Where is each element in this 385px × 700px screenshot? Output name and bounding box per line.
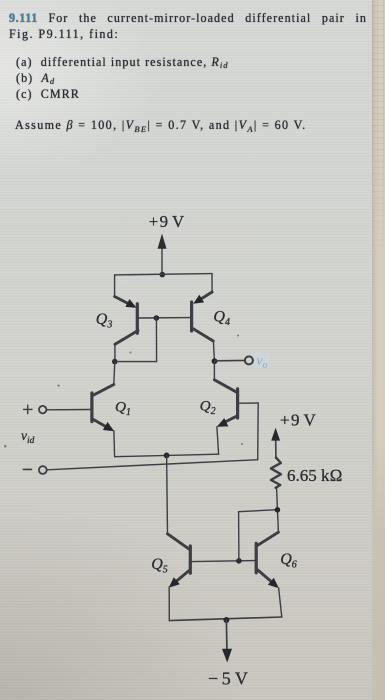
node output junction: [212, 358, 218, 364]
output terminal circle: [245, 356, 253, 364]
wire Q1 collector up: [114, 362, 115, 385]
node top-rail junction: [160, 272, 166, 278]
wire Q6 emitter down: [279, 588, 282, 617]
wire top rail: [115, 274, 212, 275]
problem text: [9, 10, 367, 26]
svg-text:+ 9 V: + 9 V: [280, 411, 316, 430]
power +9V right label: [280, 411, 316, 430]
svg-text:+ 9 V: + 9 V: [149, 212, 184, 231]
right page edge (graph paper strip): [372, 0, 385, 700]
svg-text:Q5: Q5: [151, 556, 168, 576]
node vid label: [21, 428, 35, 446]
wire diode connection drop: [155, 318, 157, 362]
svg-text:Q4: Q4: [213, 308, 230, 328]
wire tail down to Q5: [166, 455, 169, 533]
wire Q5 emitter down: [168, 587, 170, 621]
wire Q2 base right: [239, 402, 258, 404]
transistor Q3 (pnp): [96, 297, 138, 345]
wire Q2 emitter down: [217, 427, 219, 454]
svg-text:Q3: Q3: [96, 311, 113, 331]
input + terminal: [24, 405, 47, 413]
power +9V top arrow: [158, 234, 167, 275]
node Q5-Q6 base junction: [236, 558, 242, 564]
wire tail rail: [115, 454, 219, 457]
transistor Q1 (npn): [92, 385, 131, 432]
svg-text:− 5 V: − 5 V: [208, 669, 248, 689]
wire Q6 diode connection up: [238, 512, 240, 561]
transistor Q5 (npn): [151, 534, 190, 588]
wire base rail Q5-Q6: [192, 561, 255, 562]
svg-text:Q6: Q6: [280, 551, 297, 571]
speck marks: [4, 335, 243, 448]
wire Q3 collector down: [114, 344, 116, 362]
svg-text:vid: vid: [21, 428, 35, 446]
power -5V arrow: [222, 620, 232, 663]
resistor 6.65k zigzag: [271, 458, 281, 488]
node base-rail junction: [154, 315, 160, 321]
node Q3 collector junction: [112, 359, 118, 365]
wire left drop to Q3 emitter: [114, 275, 116, 297]
wire Q2 base drop: [257, 403, 260, 460]
wire to output terminal: [215, 359, 245, 361]
wire Q6 collector up: [277, 510, 280, 533]
transistor Q4 (pnp): [192, 292, 230, 341]
resistor label 6.65 kOhm: [287, 466, 343, 485]
input - terminal: [23, 466, 46, 474]
svg-text:Q1: Q1: [115, 398, 131, 418]
wire base rail Q3-Q4: [139, 317, 190, 319]
svg-text:Q2: Q2: [200, 398, 216, 418]
power -5V label: [208, 669, 248, 689]
wire bottom rail: [169, 617, 281, 621]
transistor Q2 (npn): [200, 380, 238, 427]
power +9V right arrow: [271, 428, 280, 458]
wire output node down to Q2 collector: [213, 361, 215, 380]
wire Q1 emitter down: [113, 431, 116, 457]
wire right drop to Q4 emitter: [211, 274, 213, 292]
node vo label: [254, 353, 269, 372]
node resistor-Q6 junction: [275, 507, 281, 513]
transistor Q6 (npn): [256, 532, 297, 588]
wire collector-to-diode link: [115, 361, 157, 363]
power +9V top label: [149, 212, 184, 231]
wire Q4 collector down: [213, 341, 214, 362]
node tail junction: [164, 453, 170, 459]
wire resistor to node: [276, 488, 279, 510]
wire diode link to resistor node: [239, 510, 278, 512]
svg-text:6.65 kΩ: 6.65 kΩ: [287, 466, 343, 485]
wire + input to Q1 base: [47, 409, 91, 411]
node bottom junction: [223, 617, 229, 623]
wire - input to Q2 base: [47, 460, 258, 470]
